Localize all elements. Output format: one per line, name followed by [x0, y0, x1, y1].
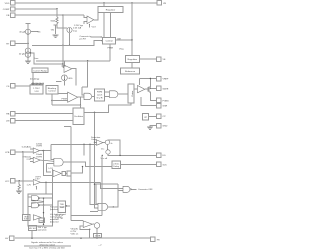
- svg-text:pin RT: pin RT: [80, 38, 87, 40]
- svg-text:OVP8: OVP8: [36, 156, 43, 158]
- svg-text:PGND: PGND: [163, 100, 170, 102]
- svg-text:40%: 40%: [68, 78, 72, 80]
- svg-text:Vreg: Vreg: [119, 47, 124, 50]
- svg-text:operation: operation: [38, 229, 48, 232]
- svg-text:23GB: 23GB: [95, 235, 101, 237]
- svg-text:1.5V: 1.5V: [34, 91, 39, 93]
- svg-text:COMP: COMP: [3, 9, 10, 11]
- svg-text:Driver: Driver: [131, 90, 134, 96]
- svg-text:Iout max 7.5 = 85% of temp and: Iout max 7.5 = 85% of temp and limit: [29, 247, 65, 250]
- svg-text:CS: CS: [6, 86, 10, 88]
- svg-text:GSR: GSR: [163, 106, 168, 108]
- svg-text:GM: GM: [117, 38, 121, 40]
- svg-text:Current Ramp: Current Ramp: [33, 70, 48, 73]
- svg-text:Delay: Delay: [113, 166, 119, 168]
- svg-text:20 µA: 20 µA: [19, 52, 25, 55]
- svg-text:LPB: LPB: [5, 152, 10, 154]
- svg-text:40 µA: 40 µA: [19, 31, 25, 34]
- svg-text:TSD: TSD: [40, 220, 45, 222]
- svg-text:VDD: VDD: [5, 3, 10, 5]
- svg-text:Latch: Latch: [97, 93, 103, 96]
- svg-text:0.4mA (1): 0.4mA (1): [22, 145, 32, 148]
- svg-text:LIN: LIN: [6, 121, 10, 123]
- svg-text:HV: HV: [157, 239, 161, 241]
- svg-text:DS: DS: [163, 155, 167, 157]
- svg-text:CP: CP: [144, 117, 148, 119]
- svg-text:Regulator: Regulator: [128, 58, 138, 61]
- svg-text:Vcc off: Vcc off: [101, 158, 108, 160]
- svg-text:detected: detected: [50, 221, 59, 224]
- svg-text:GND: GND: [163, 126, 168, 128]
- svg-text:40 µA typ: 40 µA typ: [30, 77, 40, 80]
- svg-text:Control: Control: [106, 40, 114, 43]
- svg-text:HB: HB: [6, 114, 10, 116]
- svg-text:GATE: GATE: [163, 87, 169, 90]
- svg-text:PWM: PWM: [97, 91, 103, 93]
- svg-text:1.0V typ: 1.0V typ: [55, 217, 64, 220]
- svg-text:PWM: PWM: [108, 48, 114, 50]
- svg-text:CP: CP: [163, 116, 167, 118]
- svg-text:1.2V: 1.2V: [27, 184, 32, 186]
- svg-text:VDD on: VDD on: [71, 233, 79, 235]
- svg-text:Converter OFF: Converter OFF: [138, 188, 153, 191]
- svg-text:OVP8: OVP8: [36, 146, 43, 148]
- svg-text:Vref: Vref: [92, 25, 96, 28]
- svg-text:HV SU: HV SU: [29, 228, 36, 230]
- svg-text:0.25 mA: 0.25 mA: [73, 27, 82, 30]
- svg-text:SLS: SLS: [163, 164, 168, 166]
- svg-text:(latched): (latched): [50, 208, 59, 211]
- svg-text:Oscillator: Oscillator: [74, 115, 83, 118]
- svg-text:1 TB C: 1 TB C: [33, 88, 40, 90]
- svg-text:Reference: Reference: [125, 70, 136, 73]
- svg-text:Regulator: Regulator: [106, 8, 116, 11]
- svg-text:Control: Control: [48, 90, 56, 93]
- svg-text:VREF: VREF: [163, 79, 169, 81]
- svg-text:HV: HV: [5, 238, 9, 240]
- svg-text:1.25V typ: 1.25V typ: [74, 24, 84, 27]
- svg-text:TSD: TSD: [60, 204, 65, 206]
- svg-text:8.6V: 8.6V: [24, 219, 29, 221]
- svg-text:S Q R: S Q R: [97, 98, 103, 100]
- svg-text:LPC: LPC: [5, 181, 10, 183]
